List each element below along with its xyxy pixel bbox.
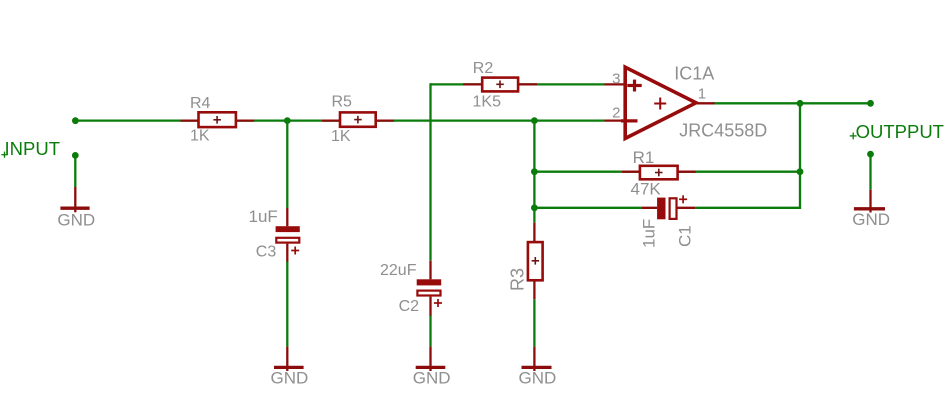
svg-text:3: 3 xyxy=(612,71,620,88)
label C2 name xyxy=(399,298,420,315)
wire: C3 branch vertical upper segment xyxy=(286,121,288,208)
ground GND (below C2) xyxy=(413,347,451,388)
label R5 value 1K xyxy=(331,128,351,145)
wire: R1 feedback row y=171.7 xyxy=(534,171,800,173)
svg-text:2: 2 xyxy=(612,104,620,121)
svg-text:1K: 1K xyxy=(331,128,351,145)
svg-text:INPUT: INPUT xyxy=(5,138,61,159)
ground GND (below R3) xyxy=(519,347,557,388)
svg-text:OUTPPUT: OUTPPUT xyxy=(856,121,944,142)
node: OUTPPUT port pin cross xyxy=(850,133,857,140)
svg-text:GND: GND xyxy=(413,369,451,388)
svg-text:1K5: 1K5 xyxy=(473,93,502,110)
svg-text:GND: GND xyxy=(519,369,557,388)
svg-text:22uF: 22uF xyxy=(380,262,417,279)
wire: input main horizontal net y=120.6 xyxy=(75,119,604,121)
node: junction R1 left xyxy=(531,168,538,175)
wire: C1 row left segment y=207.8 xyxy=(534,207,641,209)
label C3 value 1uF xyxy=(249,207,278,226)
resistor R4 xyxy=(181,112,255,127)
label IC1A xyxy=(674,64,714,84)
svg-text:GND: GND xyxy=(852,210,890,229)
label R1 value 47K xyxy=(631,180,662,199)
wire: C3 branch vertical lower segment xyxy=(286,261,288,347)
svg-text:R2: R2 xyxy=(473,60,494,77)
capacitor C3 (polarized, vertical) xyxy=(276,208,300,262)
svg-text:JRC4558D: JRC4558D xyxy=(679,120,767,140)
wire: C1 row right segment y=207.8 xyxy=(695,207,801,209)
wire: top net to R2 / pin 3 row y=84.4 xyxy=(431,83,605,85)
svg-text:1K: 1K xyxy=(190,128,210,145)
wire: input port gnd lead xyxy=(74,155,76,187)
wire: vertical branch from R2 row down to C2 xyxy=(429,83,431,261)
pin number 3 xyxy=(612,71,620,88)
svg-text:C1: C1 xyxy=(676,225,695,247)
label R1 name xyxy=(633,148,655,167)
resistor R1 xyxy=(622,166,696,180)
node: junction main/R3 branch xyxy=(531,117,538,124)
capacitor C2 (polarized, vertical) xyxy=(417,261,442,316)
wire: output row y=103.3 xyxy=(713,102,871,104)
label R2 value 1K5 xyxy=(473,93,502,110)
label INPUT port xyxy=(5,138,61,159)
svg-text:C3: C3 xyxy=(256,243,277,260)
svg-text:R3: R3 xyxy=(508,268,528,291)
node: input gnd terminal xyxy=(72,152,79,159)
resistor R2 xyxy=(463,78,537,92)
resistor R3 (vertical) xyxy=(528,223,543,300)
label C1 value 1uF (rotated) xyxy=(640,219,659,248)
svg-text:1uF: 1uF xyxy=(640,219,659,248)
wire: C2 branch vertical lower segment xyxy=(429,315,431,347)
op-amp IC1A pin 1 stub xyxy=(694,102,715,104)
svg-text:GND: GND xyxy=(271,369,309,388)
node: input terminal xyxy=(72,117,79,124)
node: output terminal xyxy=(867,100,874,107)
label R4 name xyxy=(190,95,211,112)
svg-text:R5: R5 xyxy=(332,94,353,111)
label C3 name xyxy=(256,243,277,260)
pin number 2 xyxy=(612,104,620,121)
label R4 value 1K xyxy=(190,128,210,145)
ground GND (below C3) xyxy=(271,347,309,388)
label R2 name xyxy=(473,60,494,77)
wire: right vertical from output row down to C1 row xyxy=(799,103,801,209)
node: junction C3 branch xyxy=(284,117,291,124)
ground GND (input port) xyxy=(57,187,95,229)
node: junction C1 left xyxy=(531,204,538,211)
svg-text:C2: C2 xyxy=(399,298,420,315)
op-amp IC1A pin 3 stub xyxy=(605,83,626,85)
node: output gnd terminal xyxy=(867,151,874,158)
capacitor C1 (polarized, horizontal, feedback) xyxy=(641,195,695,219)
svg-text:47K: 47K xyxy=(631,180,662,199)
svg-text:IC1A: IC1A xyxy=(674,64,714,84)
svg-text:1uF: 1uF xyxy=(249,207,278,226)
node: junction R1 right xyxy=(797,168,804,175)
label R3 name (rotated) xyxy=(508,268,528,291)
op-amp IC1A triangle body xyxy=(621,67,696,138)
label JRC4558D xyxy=(679,120,767,140)
label OUTPPUT port xyxy=(856,121,944,142)
op-amp IC1A pin 2 stub xyxy=(605,119,626,121)
node: INPUT port pin cross xyxy=(1,152,7,158)
resistor R5 xyxy=(322,112,394,126)
ground GND (output port) xyxy=(852,190,890,229)
wire: R3 lower segment to ground xyxy=(533,299,535,346)
label C1 name (rotated) xyxy=(676,225,695,247)
svg-text:1: 1 xyxy=(698,85,706,102)
svg-text:R4: R4 xyxy=(190,95,211,112)
svg-text:R1: R1 xyxy=(633,148,655,167)
wire: vertical branch from main net down to R3 xyxy=(533,121,535,223)
node: junction output/R1 right vertical top xyxy=(797,100,804,107)
label C2 value 22uF xyxy=(380,262,417,279)
pin number 1 xyxy=(698,85,706,102)
label R5 name xyxy=(332,94,353,111)
wire: output port gnd lead xyxy=(869,154,871,190)
svg-text:GND: GND xyxy=(57,210,95,229)
